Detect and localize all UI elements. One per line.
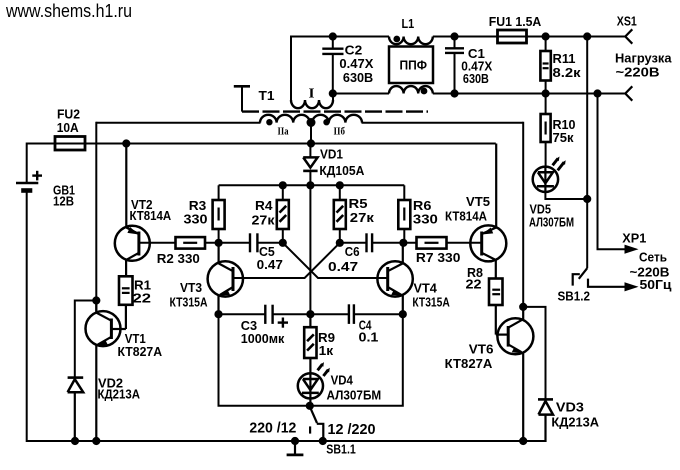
- label C2 value: [339, 56, 373, 71]
- svg-text:КТ814А: КТ814А: [130, 208, 172, 223]
- filter block PPF bottom winding: [389, 86, 433, 93]
- node FU1 out / R11 top: [542, 33, 549, 40]
- svg-text:12В: 12В: [53, 194, 74, 209]
- capacitor C1: [445, 37, 464, 94]
- label PPF: [400, 58, 428, 73]
- svg-text:75к: 75к: [553, 130, 574, 145]
- node C6 / R5 junction: [336, 239, 343, 246]
- transistor VT1: [86, 301, 121, 443]
- label R10: [553, 117, 576, 132]
- label C5 value: [257, 257, 283, 272]
- svg-text:КТ814А: КТ814А: [445, 209, 488, 224]
- label VD4: [331, 373, 354, 388]
- wire bottom rail of line filter: [333, 93, 626, 95]
- svg-text:0.1: 0.1: [359, 330, 379, 345]
- label VD2 type: [98, 387, 141, 402]
- label XP1: [622, 231, 646, 246]
- wire battery bottom riser: [26, 191, 28, 443]
- svg-text:ППФ: ППФ: [400, 58, 428, 73]
- svg-text:330: 330: [184, 212, 208, 227]
- node VD5 return: [584, 195, 591, 202]
- svg-text:АЛ307БМ: АЛ307БМ: [529, 215, 574, 230]
- node live feed top: [584, 33, 591, 40]
- svg-text:I: I: [309, 87, 315, 102]
- label R9 value: [319, 343, 334, 358]
- label R3 value: [184, 212, 208, 227]
- svg-text:XS1: XS1: [617, 14, 637, 29]
- LED VD4: [298, 362, 330, 398]
- resistor R11: [540, 37, 550, 94]
- svg-text:22: 22: [466, 277, 482, 292]
- svg-text:220 /12: 220 /12: [249, 421, 296, 437]
- svg-text:R4: R4: [255, 198, 273, 213]
- svg-text:VТ3: VТ3: [180, 280, 202, 295]
- svg-text:R2 330: R2 330: [157, 251, 200, 266]
- svg-text:~220В: ~220В: [616, 65, 660, 80]
- label Nagruzka: [615, 51, 672, 66]
- svg-text:FU1 1.5А: FU1 1.5А: [489, 14, 542, 29]
- transformer T1 primary winding I: [291, 94, 333, 109]
- label VD1 type: [319, 163, 365, 178]
- label R5 value: [350, 210, 375, 225]
- wire top rail (C2 loop to XS1): [291, 36, 625, 38]
- svg-text:IIб: IIб: [334, 127, 346, 138]
- wire VT2 base to R2: [139, 242, 176, 244]
- label Set 220V: [630, 265, 670, 280]
- node T1 center tap: [307, 119, 315, 127]
- svg-text:1000мк: 1000мк: [241, 331, 285, 346]
- node R4 top: [279, 182, 286, 189]
- svg-text:КД213А: КД213А: [98, 387, 141, 402]
- fuse FU1: [498, 30, 527, 43]
- svg-text:КТ315А: КТ315А: [170, 295, 208, 310]
- switch SB1.2 arm: [579, 268, 587, 279]
- label C1 voltage: [463, 71, 489, 86]
- node center emitter rail: [307, 311, 314, 318]
- label C6 value: [328, 259, 358, 274]
- label C6: [345, 244, 360, 259]
- polarity dot PPF winding: [421, 88, 427, 94]
- wire VD3 branch top: [523, 307, 545, 400]
- transformer T1 core: [242, 110, 428, 112]
- svg-text:R11: R11: [553, 51, 576, 66]
- svg-text:Сеть: Сеть: [639, 250, 667, 265]
- label R1: [134, 278, 151, 293]
- label VT3: [180, 280, 202, 295]
- resistor R10: [541, 94, 551, 167]
- resistor R4: [277, 185, 289, 243]
- label winding IIa: [278, 127, 290, 138]
- label VT1: [125, 331, 146, 346]
- resistor R6: [398, 185, 410, 243]
- label VT4 type: [412, 295, 450, 310]
- wire cross coupling to VT4 base: [283, 243, 388, 278]
- label C4: [359, 318, 372, 333]
- label SB1.2: [558, 289, 591, 304]
- capacitor C3 plus: [278, 318, 288, 328]
- node R3 bottom / VT3 collector: [215, 239, 222, 246]
- label VT5 type: [445, 209, 488, 224]
- transformer T1 secondary winding IIb: [312, 115, 362, 123]
- label Set: [639, 250, 667, 265]
- transformer T1 secondary winding IIa: [260, 115, 310, 123]
- svg-text:КТ315А: КТ315А: [412, 295, 450, 310]
- svg-text:27к: 27к: [350, 210, 375, 225]
- wire secondary right to VT6 collector riser: [362, 122, 524, 124]
- wire multivibrator center line: [309, 185, 311, 314]
- diode VD1: [303, 144, 317, 186]
- wire VD2 branch top: [75, 301, 97, 378]
- battery GB1 negative plate: [21, 188, 32, 193]
- label GB1: [53, 183, 75, 198]
- svg-text:R7 330: R7 330: [416, 250, 461, 265]
- label VT6: [469, 342, 494, 357]
- node R5 top: [336, 182, 343, 189]
- label R11 value: [553, 65, 582, 80]
- label VD4 type: [327, 388, 382, 403]
- wire bottom rail: [27, 440, 546, 442]
- svg-text:630В: 630В: [463, 71, 489, 86]
- resistor R2: [176, 237, 206, 249]
- svg-text:27к: 27к: [252, 213, 276, 228]
- label R3: [189, 198, 207, 213]
- resistor R3: [213, 185, 225, 243]
- label 220/12: [249, 421, 296, 437]
- svg-text:630В: 630В: [343, 70, 373, 85]
- label 12/220: [328, 422, 376, 438]
- label VT2: [131, 197, 153, 212]
- arrow XP1 net pin: [625, 245, 639, 254]
- svg-text:330: 330: [413, 212, 438, 227]
- svg-text:VD1: VD1: [320, 147, 343, 162]
- label VD3 type: [551, 415, 599, 430]
- label VD5: [530, 202, 552, 217]
- svg-text:12 /220: 12 /220: [328, 422, 376, 438]
- node VD1 bottom: [307, 182, 314, 189]
- svg-text:VD4: VD4: [331, 373, 354, 388]
- label R6 value: [413, 212, 438, 227]
- connector XS1 bottom pin: [625, 86, 632, 100]
- svg-text:КД105А: КД105А: [319, 163, 365, 178]
- label VT3 type: [170, 295, 208, 310]
- switch SB1.2 left contact: [573, 274, 580, 285]
- transistor VT2: [115, 144, 150, 277]
- label XS1: [617, 14, 637, 29]
- svg-text:Нагрузка: Нагрузка: [615, 51, 672, 66]
- svg-text:10А: 10А: [57, 120, 80, 135]
- svg-text:1к: 1к: [319, 343, 334, 358]
- wire VT6 collector riser: [522, 122, 524, 307]
- label R8 value: [466, 277, 482, 292]
- wire left rail riser: [95, 122, 97, 312]
- resistor R1: [111, 276, 132, 329]
- label R8: [467, 265, 483, 280]
- wire emitter return loop: [219, 314, 403, 406]
- capacitor C3: [265, 305, 272, 324]
- transistor VT5: [470, 144, 506, 279]
- label R7: [416, 250, 461, 265]
- wire VD4 to SB1.1: [309, 399, 311, 406]
- wire multivibrator top rail: [219, 184, 405, 186]
- label VT1 type: [118, 344, 163, 359]
- resistor R5: [334, 185, 346, 243]
- wire neutral branch down to XP1: [598, 94, 628, 250]
- wire secondary left to left rail: [96, 122, 260, 124]
- wire live feed down: [586, 37, 588, 269]
- wire center tap down: [310, 123, 312, 144]
- wire cross coupling to VT3 base: [233, 243, 340, 278]
- svg-text:0.47Х: 0.47Х: [339, 56, 373, 71]
- polarity dot winding IIb: [324, 120, 329, 125]
- svg-text:R5: R5: [349, 196, 368, 211]
- node VT1 emitter bottom: [93, 437, 100, 444]
- label R9: [318, 330, 335, 345]
- transistor VT4: [377, 243, 412, 314]
- transistor VT3: [208, 243, 243, 314]
- svg-text:Т1: Т1: [259, 88, 275, 103]
- label 50Hz: [640, 277, 672, 292]
- node VT2 emitter tap: [123, 140, 130, 147]
- fuse FU2: [55, 137, 85, 151]
- svg-text:IIа: IIа: [278, 127, 290, 138]
- node VD2 bottom: [71, 437, 78, 444]
- label C2 voltage: [343, 70, 373, 85]
- arrow 50Hz pin: [625, 282, 639, 291]
- label C1: [468, 46, 485, 61]
- label SB1.1: [326, 442, 356, 457]
- svg-text:КТ827А: КТ827А: [445, 356, 493, 371]
- label FU1: [489, 14, 542, 29]
- node C1 top: [451, 33, 458, 40]
- node R11 bottom: [542, 90, 549, 97]
- node VD3 tap: [520, 303, 527, 310]
- label R4 value: [252, 213, 276, 228]
- node C2 bottom / primary right: [329, 90, 336, 97]
- svg-text:VT6: VT6: [469, 342, 494, 357]
- transformer T1 screen: [234, 86, 250, 111]
- svg-text:SB1.2: SB1.2: [558, 289, 591, 304]
- label VD5 type: [529, 215, 574, 230]
- label C3: [241, 318, 257, 333]
- connector XS1 top pin: [625, 29, 632, 43]
- node SB1.1 contact bottom: [319, 437, 326, 444]
- label R10 value: [553, 130, 574, 145]
- node C2 top: [329, 33, 336, 40]
- filter block PPF box: [389, 47, 433, 84]
- capacitor C2: [322, 37, 343, 94]
- svg-text:VD3: VD3: [556, 400, 584, 415]
- svg-text:XP1: XP1: [622, 231, 646, 246]
- wire C6 to R7: [372, 242, 416, 244]
- resistor R7: [417, 237, 447, 249]
- diode VD3: [538, 399, 553, 442]
- label L1: [402, 16, 415, 31]
- svg-text:АЛ307БМ: АЛ307БМ: [327, 388, 382, 403]
- LED VD5: [533, 157, 566, 193]
- node VD2 tap: [93, 297, 100, 304]
- label VD1: [320, 147, 343, 162]
- label R6: [413, 198, 432, 213]
- label winding IIb: [334, 127, 346, 138]
- svg-text:www.shems.h1.ru: www.shems.h1.ru: [5, 0, 132, 21]
- transistor VT6: [497, 307, 533, 442]
- wire battery top riser: [26, 143, 28, 184]
- node neutral branch: [594, 90, 601, 97]
- label VT5: [466, 194, 490, 209]
- label FU2 value: [57, 120, 80, 135]
- label C2: [345, 43, 363, 58]
- node center tap on rail / VD1 anode: [307, 140, 314, 147]
- label VT6 type: [445, 356, 493, 371]
- polarity dot winding IIa: [267, 120, 272, 125]
- wire 12V rail: [27, 143, 496, 145]
- capacitor C4: [349, 304, 354, 324]
- inductor L1: [389, 37, 433, 45]
- svg-text:0.47: 0.47: [328, 259, 358, 274]
- switch SB1.1 arm: [310, 407, 317, 423]
- resistor R9: [304, 314, 316, 373]
- label VT2 type: [130, 208, 172, 223]
- node C1 bottom: [451, 90, 458, 97]
- polarity dot L1: [394, 36, 400, 42]
- wire C2 loop left riser: [290, 36, 292, 101]
- svg-text:L1: L1: [402, 16, 415, 31]
- svg-text:КТ827А: КТ827А: [118, 344, 163, 359]
- battery GB1 plus sign: [32, 171, 42, 181]
- label C3 value: [241, 331, 285, 346]
- label C1 value: [461, 58, 492, 73]
- label R1 value: [133, 291, 152, 306]
- battery GB1 positive plate: [16, 182, 38, 185]
- node VT3 emitter: [215, 311, 222, 318]
- svg-text:С6: С6: [345, 244, 360, 259]
- svg-text:50Гц: 50Гц: [640, 277, 672, 292]
- wire emitter rail: [219, 313, 403, 315]
- transformer T1 label: [259, 88, 275, 103]
- svg-text:VT4: VT4: [414, 281, 438, 296]
- wire R7 to VT5 base: [447, 242, 482, 244]
- capacitor C6: [340, 233, 372, 252]
- svg-text:0.47: 0.47: [257, 257, 283, 272]
- label GB1 voltage: [53, 194, 74, 209]
- label R11: [553, 51, 576, 66]
- wire R2 to C5: [205, 242, 250, 244]
- label Nagruzka 220V: [616, 65, 660, 80]
- svg-text:SB1.1: SB1.1: [326, 442, 356, 457]
- resistor R8: [489, 279, 508, 335]
- diode VD2: [68, 378, 84, 442]
- label R5: [349, 196, 368, 211]
- svg-text:8.2к: 8.2к: [553, 65, 582, 80]
- label VD3: [556, 400, 584, 415]
- label C5: [259, 244, 275, 259]
- label VD2: [98, 376, 123, 391]
- label winding I: [309, 87, 315, 102]
- node VT4 emitter: [399, 311, 406, 318]
- switch SB1.2 output: [588, 279, 627, 287]
- svg-text:КД213А: КД213А: [551, 415, 599, 430]
- switch SB1.1 right contact: [317, 424, 324, 441]
- node SB1.1 common: [306, 402, 313, 409]
- wire VD5 return: [545, 192, 587, 199]
- node R6 bottom / R7 left: [400, 239, 407, 246]
- label R2: [157, 251, 200, 266]
- label C4 value: [359, 330, 379, 345]
- label R4: [255, 198, 273, 213]
- node VT6 emitter bottom: [520, 437, 527, 444]
- ground symbol: [287, 441, 304, 455]
- label FU2: [57, 107, 80, 122]
- site caption top: [5, 0, 132, 21]
- svg-text:VT5: VT5: [466, 194, 490, 209]
- switch SB1.1 left contact: [309, 426, 311, 433]
- node C5 / R4 junction: [279, 239, 286, 246]
- capacitor C5: [250, 233, 283, 252]
- label VT4: [414, 281, 438, 296]
- node ground tap: [291, 437, 298, 444]
- svg-text:22: 22: [133, 291, 152, 306]
